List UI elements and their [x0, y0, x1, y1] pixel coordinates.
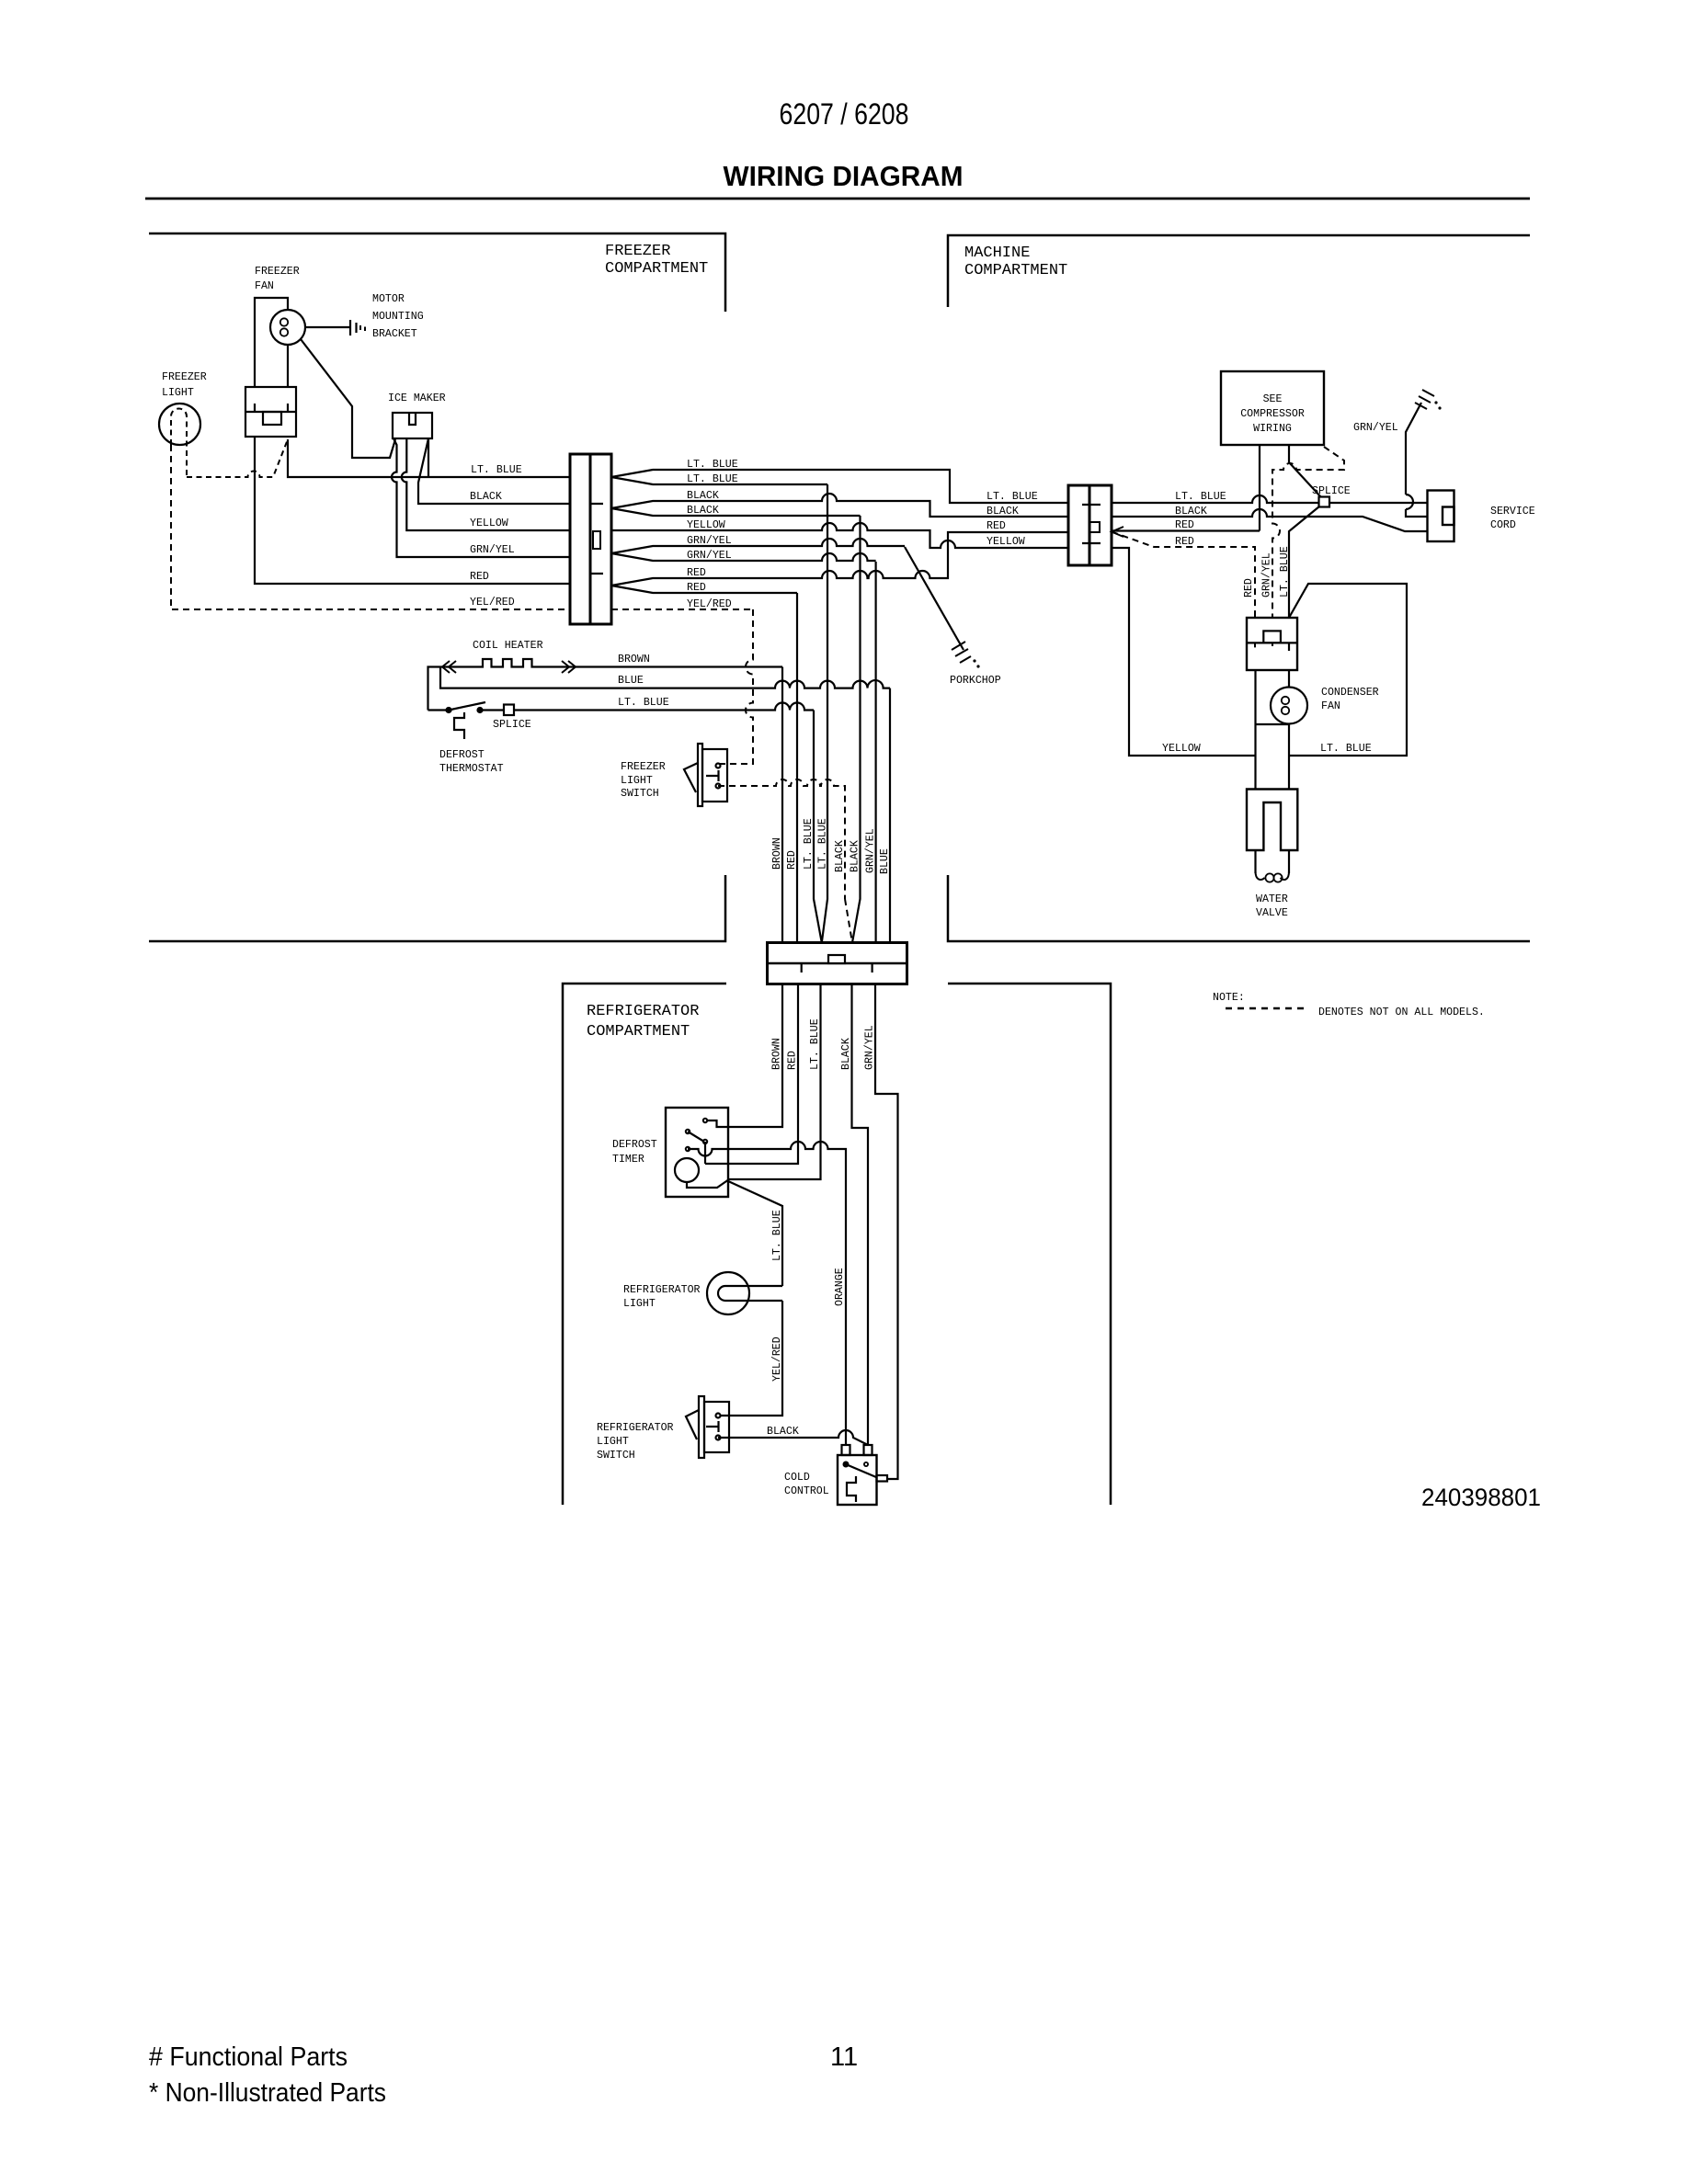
- svg-text:GRN/YEL: GRN/YEL: [1261, 552, 1273, 597]
- compressor box: [1221, 371, 1324, 445]
- wire label YELLOW left: [470, 518, 508, 529]
- svg-text:* Non-Illustrated Parts: * Non-Illustrated Parts: [149, 2078, 386, 2108]
- refrigerator light label: [623, 1284, 701, 1310]
- wire BLACK upper right: [611, 494, 1068, 517]
- svg-text:BLACK: BLACK: [834, 840, 846, 872]
- freezer light L1: [159, 404, 200, 477]
- wire GRN/YEL lower right: [611, 553, 876, 561]
- service cord label: [1490, 506, 1535, 531]
- freezer compartment label: [605, 243, 708, 278]
- wire label BLACK mright: [1175, 506, 1207, 518]
- cold control CC1: [838, 1445, 887, 1505]
- svg-text:MACHINE: MACHINE: [964, 245, 1030, 262]
- svg-text:BLACK: BLACK: [850, 840, 861, 872]
- svg-text:COMPARTMENT: COMPARTMENT: [587, 1023, 690, 1041]
- svg-text:GRN/YEL: GRN/YEL: [687, 535, 732, 547]
- svg-text:GRN/YEL: GRN/YEL: [470, 544, 515, 556]
- machine compartment border bottom: [948, 875, 1530, 941]
- wire BLACK lower right: [611, 508, 861, 516]
- svg-text:LIGHT: LIGHT: [162, 387, 194, 399]
- refrigerator compartment border left: [563, 984, 726, 1505]
- freezer light switch label: [621, 761, 666, 800]
- svg-text:VALVE: VALVE: [1256, 907, 1288, 919]
- wire YEL/RED light to switch: [718, 1301, 782, 1416]
- svg-text:WIRING DIAGRAM: WIRING DIAGRAM: [724, 160, 964, 192]
- relay leg jumper: [1256, 723, 1290, 725]
- wire label RED right2: [687, 582, 706, 594]
- svg-text:BROWN: BROWN: [771, 837, 783, 870]
- condenser fan M2: [1271, 670, 1307, 756]
- wire label BLACK left: [470, 491, 502, 503]
- refrigerator light switch label: [597, 1422, 674, 1462]
- wire label YELLOW mleft: [987, 536, 1025, 548]
- wire GRN/YEL porkchop diagonal: [905, 547, 980, 668]
- machine compartment border top: [948, 235, 1530, 307]
- ice maker pin D: [428, 438, 429, 477]
- svg-text:# Functional Parts: # Functional Parts: [149, 2042, 348, 2072]
- svg-text:RED: RED: [470, 571, 489, 583]
- svg-text:GRN/YEL: GRN/YEL: [687, 550, 732, 562]
- wire label GRN/YEL rot relay: [1261, 552, 1273, 597]
- svg-text:FREEZER: FREEZER: [162, 371, 207, 383]
- wire label LT. BLUE left: [471, 464, 522, 476]
- svg-text:LT. BLUE: LT. BLUE: [1175, 491, 1226, 503]
- svg-text:RED: RED: [987, 520, 1006, 532]
- machine compartment label: [964, 245, 1067, 279]
- svg-text:SWITCH: SWITCH: [597, 1450, 635, 1462]
- svg-text:RED: RED: [1243, 578, 1255, 597]
- svg-text:THERMOSTAT: THERMOSTAT: [439, 763, 504, 775]
- wire YELLOW machine bottom: [1112, 548, 1256, 756]
- svg-text:LIGHT: LIGHT: [597, 1436, 629, 1448]
- svg-text:11: 11: [830, 2042, 858, 2072]
- wire LT. BLUE fan to connector: [288, 439, 570, 477]
- wire GRN/YEL to cold control: [875, 984, 898, 1480]
- wire RED machine right: [1112, 529, 1260, 531]
- wire LT. BLUE splice to relay: [1289, 506, 1319, 618]
- svg-text:COIL HEATER: COIL HEATER: [473, 640, 543, 652]
- wire dashed freezer light to fan box: [187, 439, 288, 477]
- wire label RED mleft: [987, 520, 1006, 532]
- wire label GRN/YEL left: [470, 544, 515, 556]
- wire label BLACK rot1: [834, 840, 846, 872]
- splice S1: [504, 705, 514, 716]
- svg-text:BROWN: BROWN: [771, 1038, 783, 1070]
- splice2 label: [1312, 485, 1351, 497]
- wire label LT. BLUE mright: [1175, 491, 1226, 503]
- svg-text:LT. BLUE: LT. BLUE: [618, 697, 669, 709]
- freezer fan box: [245, 387, 296, 437]
- svg-text:LT. BLUE: LT. BLUE: [803, 818, 815, 870]
- svg-text:YEL/RED: YEL/RED: [470, 597, 515, 609]
- wire label RED right1: [687, 567, 706, 579]
- svg-text:SWITCH: SWITCH: [621, 788, 659, 800]
- refrigerator compartment border right: [948, 984, 1111, 1505]
- wire LT. BLUE to defrost timer: [729, 984, 821, 1180]
- svg-text:YEL/RED: YEL/RED: [771, 1337, 783, 1382]
- wire motor to ice maker (ground lead): [301, 339, 395, 458]
- wire label GRN/YEL right1: [687, 535, 732, 547]
- wire YELLOW right: [611, 523, 1068, 548]
- wire LT. BLUE defrost circuit: [428, 703, 815, 711]
- wire label BROWN rot: [771, 837, 783, 870]
- wire label GRN/YEL rot fridge: [864, 1025, 876, 1070]
- compressor lead 2: [1289, 445, 1321, 497]
- svg-text:BLACK: BLACK: [470, 491, 502, 503]
- svg-text:BROWN: BROWN: [618, 654, 650, 665]
- svg-text:WIRING: WIRING: [1253, 423, 1292, 435]
- svg-text:LT. BLUE: LT. BLUE: [817, 818, 829, 870]
- freezer fan motor M1: [270, 310, 305, 345]
- wire BLUE coil heater: [440, 667, 890, 688]
- relay overload R1: [1247, 618, 1297, 670]
- wire label LT. BLUE loop: [1320, 743, 1372, 755]
- motor mounting bracket label: [372, 293, 424, 340]
- splice label: [493, 719, 531, 731]
- wire BLACK dashed from switch: [718, 779, 845, 899]
- wire label BROWN: [618, 654, 650, 665]
- wire label RED mright: [1175, 519, 1194, 531]
- svg-text:YELLOW: YELLOW: [470, 518, 508, 529]
- splice S2: [1319, 497, 1330, 507]
- svg-text:DEFROST: DEFROST: [612, 1139, 657, 1151]
- svg-text:LIGHT: LIGHT: [623, 1298, 656, 1310]
- svg-text:TIMER: TIMER: [612, 1154, 644, 1166]
- svg-text:CORD: CORD: [1490, 519, 1516, 531]
- svg-text:ORANGE: ORANGE: [834, 1268, 846, 1306]
- wire RED vertical: [796, 593, 798, 943]
- water valve WV1: [1247, 756, 1297, 882]
- svg-text:BLUE: BLUE: [879, 848, 891, 874]
- wire BROWN to defrost timer: [705, 984, 782, 1128]
- freezer compartment border top: [149, 233, 725, 312]
- wire LT. BLUE vertical 2: [822, 484, 827, 943]
- svg-text:REFRIGERATOR: REFRIGERATOR: [623, 1284, 701, 1296]
- wire BLACK to cold control: [852, 984, 869, 1446]
- svg-text:SPLICE: SPLICE: [493, 719, 531, 731]
- freezer fan label: [255, 266, 300, 292]
- wire label YEL/RED left: [470, 597, 515, 609]
- svg-text:SPLICE: SPLICE: [1312, 485, 1351, 497]
- svg-text:SEE: SEE: [1263, 393, 1283, 405]
- wire ORANGE timer to cold control: [688, 1142, 846, 1445]
- wire YEL/RED dashed right: [611, 609, 753, 610]
- wire BLUE vertical: [889, 688, 891, 943]
- wire GRN/YEL vertical: [874, 562, 876, 943]
- wire label LT. BLUE mleft: [987, 491, 1038, 503]
- wire label RED rot relay: [1243, 578, 1255, 597]
- wire label BLACK right2: [687, 505, 719, 517]
- compressor lead 1: [1259, 445, 1260, 531]
- wire RED upper right: [611, 532, 1068, 586]
- svg-text:COMPRESSOR: COMPRESSOR: [1240, 408, 1305, 420]
- svg-text:SERVICE: SERVICE: [1490, 506, 1535, 518]
- svg-text:LT. BLUE: LT. BLUE: [471, 464, 522, 476]
- svg-text:BLACK: BLACK: [687, 490, 719, 502]
- wire label GRN/YEL rot: [865, 828, 877, 873]
- wire YEL/RED dashed to switch: [718, 609, 753, 764]
- svg-text:YELLOW: YELLOW: [987, 536, 1025, 548]
- title rule: [145, 198, 1530, 200]
- freezer light switch SW1: [684, 744, 727, 806]
- wire label LT. BLUE rot1: [803, 818, 815, 870]
- relay left leg: [1254, 670, 1256, 756]
- wire BLACK switch to cold control: [718, 1430, 868, 1445]
- svg-text:BLACK: BLACK: [840, 1038, 852, 1070]
- svg-text:CONDENSER: CONDENSER: [1321, 687, 1379, 699]
- wire label RED left: [470, 571, 489, 583]
- freezer fan frame: [255, 298, 288, 387]
- ice maker pin B wire YELLOW: [402, 438, 570, 530]
- svg-text:YEL/RED: YEL/RED: [687, 598, 732, 610]
- wire label RED rot fridge: [787, 1051, 799, 1070]
- wire LT. BLUE machine right: [1112, 495, 1428, 503]
- svg-text:GRN/YEL: GRN/YEL: [1353, 422, 1398, 434]
- svg-text:YELLOW: YELLOW: [687, 519, 725, 531]
- coil heater label: [473, 640, 543, 652]
- svg-text:RED: RED: [687, 567, 706, 579]
- svg-text:ICE MAKER: ICE MAKER: [388, 392, 446, 404]
- wire LT. BLUE relay loop: [1289, 584, 1407, 756]
- svg-text:6207 / 6208: 6207 / 6208: [780, 97, 909, 131]
- wire YEL/RED dashed freezer light to connector: [171, 445, 570, 609]
- svg-text:COMPARTMENT: COMPARTMENT: [964, 262, 1067, 279]
- wire BROWN vertical: [781, 667, 783, 943]
- wire LT. BLUE lower right: [611, 477, 827, 484]
- wire label YELLOW bottom: [1162, 743, 1201, 755]
- wire label YEL/RED right: [687, 598, 732, 610]
- wire RED lower right: [611, 586, 797, 593]
- svg-text:LT. BLUE: LT. BLUE: [771, 1210, 783, 1261]
- svg-text:FREEZER: FREEZER: [255, 266, 300, 278]
- svg-text:GRN/YEL: GRN/YEL: [865, 828, 877, 873]
- wire label LT. BLUE rot2: [817, 818, 829, 870]
- wire LT. BLUE upper right: [611, 470, 1068, 503]
- svg-text:RED: RED: [1175, 519, 1194, 531]
- refrigerator connector P3: [768, 943, 907, 984]
- svg-text:FREEZER: FREEZER: [605, 243, 670, 260]
- svg-text:NOTE:: NOTE:: [1213, 992, 1245, 1004]
- wire label LT. BLUE right2: [687, 473, 738, 485]
- svg-text:MOUNTING: MOUNTING: [372, 311, 424, 323]
- wire label BLACK mleft: [987, 506, 1019, 518]
- wire label YELLOW right: [687, 519, 725, 531]
- svg-text:COLD: COLD: [784, 1472, 810, 1484]
- wire RED fan to connector: [255, 437, 570, 584]
- svg-text:FAN: FAN: [1321, 700, 1340, 712]
- refrigerator light switch SW2: [686, 1396, 729, 1458]
- svg-text:RED: RED: [687, 582, 706, 594]
- refrigerator light L2: [707, 1272, 782, 1314]
- svg-text:RED: RED: [786, 850, 798, 870]
- svg-text:RED: RED: [787, 1051, 799, 1070]
- wire BLACK machine right: [1112, 509, 1428, 531]
- svg-text:DEFROST: DEFROST: [439, 749, 485, 761]
- svg-text:DENOTES NOT ON ALL MODELS.: DENOTES NOT ON ALL MODELS.: [1318, 1007, 1485, 1018]
- wire LT. BLUE vertical 1: [814, 711, 822, 943]
- wire GRN/YEL upper right: [611, 539, 905, 553]
- svg-text:BLACK: BLACK: [687, 505, 719, 517]
- defrost thermostat TH1: [445, 702, 485, 739]
- ice maker pin A wire GRN/YEL: [392, 438, 570, 557]
- wire label BROWN rot fridge: [771, 1038, 783, 1070]
- wire label BLACK rot fridge: [840, 1038, 852, 1070]
- wire LT. BLUE timer to refrigerator light: [728, 1181, 782, 1286]
- svg-text:LT. BLUE: LT. BLUE: [1279, 546, 1291, 597]
- wire label LT. BLUE rot relay: [1279, 546, 1291, 597]
- refrigerator compartment label: [587, 1003, 699, 1041]
- ice maker label: [388, 392, 446, 404]
- svg-text:LT. BLUE: LT. BLUE: [687, 473, 738, 485]
- cold control label: [784, 1472, 829, 1497]
- defrost thermostat label: [439, 749, 504, 775]
- svg-text:FAN: FAN: [255, 280, 274, 292]
- svg-text:LT. BLUE: LT. BLUE: [687, 459, 738, 471]
- wire label BLUE: [618, 675, 644, 687]
- svg-text:LT. BLUE: LT. BLUE: [1320, 743, 1372, 755]
- wire label LT. BLUE rot light: [771, 1210, 783, 1261]
- svg-text:CONTROL: CONTROL: [784, 1485, 829, 1497]
- svg-text:WATER: WATER: [1256, 893, 1288, 905]
- condenser fan label: [1321, 687, 1379, 712]
- svg-text:LIGHT: LIGHT: [621, 775, 653, 787]
- svg-text:COMPARTMENT: COMPARTMENT: [605, 260, 708, 278]
- wire GRN/YEL service ground: [1406, 390, 1442, 517]
- svg-text:YELLOW: YELLOW: [1162, 743, 1201, 755]
- machine connector P2: [1068, 485, 1112, 565]
- ice maker IM1: [393, 413, 432, 438]
- service cord plug: [1428, 491, 1454, 542]
- svg-text:PORKCHOP: PORKCHOP: [950, 675, 1001, 687]
- wire label GRN/YEL right2: [687, 550, 732, 562]
- wire label RED mright dashed: [1175, 536, 1194, 548]
- water valve label: [1256, 893, 1288, 919]
- wire label LT. BLUE right1: [687, 459, 738, 471]
- defrost timer DT1: [666, 1108, 729, 1197]
- wire BLACK vertical: [852, 516, 861, 943]
- wire label BLACK switch: [767, 1426, 799, 1438]
- wire RED to defrost timer: [705, 984, 798, 1165]
- wire label RED rot: [786, 850, 798, 870]
- wire label BLACK rot2: [850, 840, 861, 872]
- svg-text:REFRIGERATOR: REFRIGERATOR: [587, 1003, 699, 1020]
- freezer connector P1: [570, 454, 611, 624]
- svg-text:BLUE: BLUE: [618, 675, 644, 687]
- freezer light label: [162, 371, 207, 399]
- wire label ORANGE rot: [834, 1268, 846, 1306]
- ice maker pin C wire BLACK: [418, 438, 570, 504]
- svg-text:MOTOR: MOTOR: [372, 293, 405, 305]
- svg-text:GRN/YEL: GRN/YEL: [864, 1025, 876, 1070]
- grn/yel ground label: [1353, 422, 1398, 434]
- wire BLACK dashed merge: [845, 899, 852, 943]
- note: [1213, 992, 1485, 1018]
- svg-text:240398801: 240398801: [1421, 1484, 1541, 1511]
- svg-text:FREEZER: FREEZER: [621, 761, 666, 773]
- porkchop label: [950, 675, 1001, 687]
- coil heater element + wire BROWN: [428, 659, 783, 711]
- wire label BLACK right1: [687, 490, 719, 502]
- svg-text:BRACKET: BRACKET: [372, 328, 417, 340]
- wire label LT. BLUE coil: [618, 697, 669, 709]
- wire label LT. BLUE rot fridge: [809, 1018, 821, 1070]
- svg-text:LT. BLUE: LT. BLUE: [809, 1018, 821, 1070]
- wire label YEL/RED rot: [771, 1337, 783, 1382]
- wire RED dashed to relay: [1112, 527, 1255, 618]
- svg-text:BLACK: BLACK: [767, 1426, 799, 1438]
- freezer compartment border bottom left: [149, 875, 725, 941]
- wire GRN/YEL dashed compressor to relay: [1272, 447, 1344, 618]
- motor mounting bracket symbol: [305, 320, 365, 336]
- svg-text:REFRIGERATOR: REFRIGERATOR: [597, 1422, 674, 1434]
- defrost timer label: [612, 1139, 657, 1166]
- svg-text:LT. BLUE: LT. BLUE: [987, 491, 1038, 503]
- svg-text:BLACK: BLACK: [987, 506, 1019, 518]
- wire label BLUE rot: [879, 848, 891, 874]
